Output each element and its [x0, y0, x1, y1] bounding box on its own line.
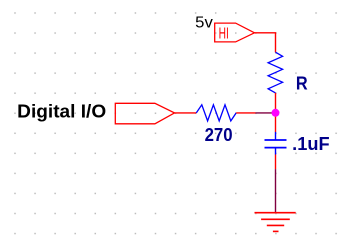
svg-text:Digital I/O: Digital I/O [17, 101, 106, 121]
wire from HI flag to resistor R top [255, 33, 276, 53]
wire from Digital I/O port to resistor 270 left lead [175, 112, 197, 114]
wire from resistor R bottom to junction and capacitor top lead [275, 93, 277, 132]
port symbol Digital I/O (input flag) [115, 103, 174, 124]
wire from capacitor to ground (dark) [275, 169, 277, 212]
resistor R (vertical zigzag) [268, 52, 283, 93]
resistor 270 (horizontal zigzag) [196, 105, 236, 121]
capacitor C (plates and stubs) [265, 132, 287, 155]
ground symbol [255, 213, 296, 232]
svg-text:HI: HI [219, 26, 229, 43]
svg-text:.1uF: .1uF [292, 134, 329, 154]
wire net segment to junction (dark) [256, 112, 274, 114]
wire resistor 270 right lead (red) [236, 112, 255, 114]
svg-text:5v: 5v [195, 14, 213, 31]
port symbol HI (5v supply flag) [215, 23, 255, 42]
wire capacitor bottom lead (red) [275, 155, 277, 170]
junction node (magenta dot) [272, 109, 280, 117]
svg-text:270: 270 [205, 125, 233, 145]
svg-text:R: R [296, 73, 308, 93]
